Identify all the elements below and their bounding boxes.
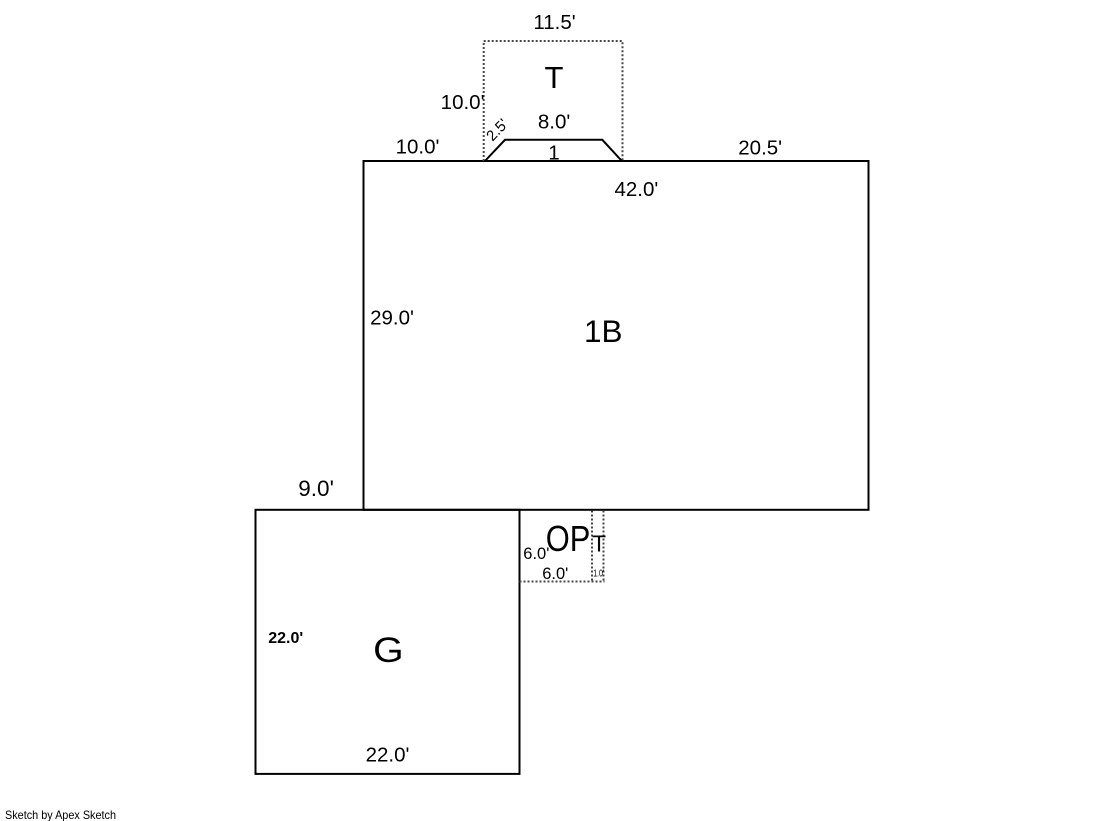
svg-text:11.5': 11.5' [533,11,575,34]
svg-text:8.0': 8.0' [538,110,570,133]
svg-text:42.0': 42.0' [614,178,658,201]
dotted outline OP bottom [520,581,605,583]
svg-text:Sketch by Apex Sketch: Sketch by Apex Sketch [5,808,116,821]
area 1B outline [364,161,869,510]
svg-text:T: T [545,60,564,95]
svg-text:10.0': 10.0' [441,91,485,114]
dotted outline T (top) [484,41,623,161]
svg-text:G: G [373,631,404,670]
svg-text:22.0': 22.0' [366,743,410,766]
area G outline [256,510,520,774]
dotted outline T (right) edge [603,511,605,582]
svg-text:29.0': 29.0' [370,306,414,329]
svg-text:9.0': 9.0' [298,476,334,501]
svg-text:1: 1 [548,142,559,165]
bay trapezoid (solid) [485,140,623,162]
svg-text:10.0': 10.0' [396,136,440,159]
dotted line OP/T divider [591,511,593,582]
svg-text:T: T [592,531,606,557]
svg-text:1B: 1B [584,313,623,349]
svg-text:20.5': 20.5' [738,136,782,159]
svg-text:OP: OP [546,518,591,559]
svg-text:22.0': 22.0' [268,630,303,647]
svg-text:1.0': 1.0' [593,569,604,580]
svg-text:6.0': 6.0' [542,565,568,583]
